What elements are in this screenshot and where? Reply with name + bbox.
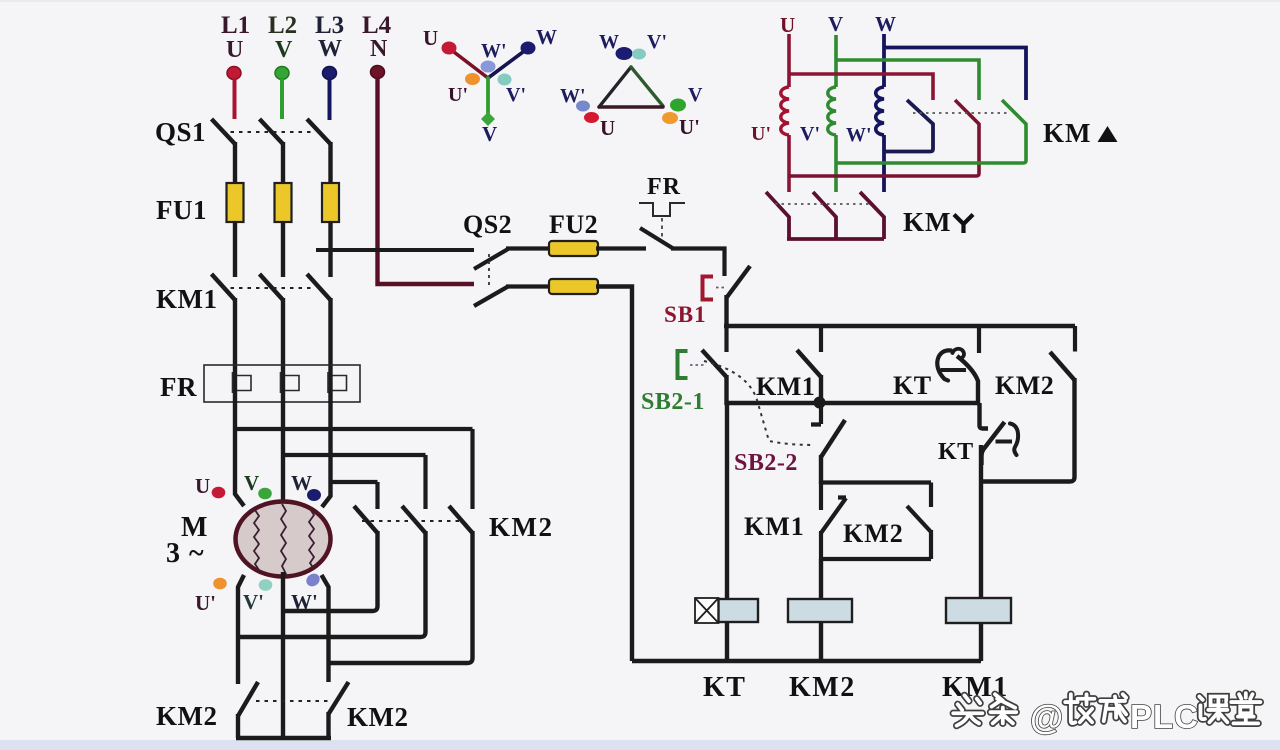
svg-text:V: V bbox=[828, 12, 843, 36]
terminal W2 dot bbox=[304, 571, 322, 589]
wire SB2-1 bottom bbox=[724, 375, 728, 405]
wire FR to SB1 corner bbox=[671, 249, 725, 277]
svg-text:V: V bbox=[688, 84, 703, 106]
wire delta pole2 bottom to U2 bbox=[238, 531, 426, 637]
wire star pole1 bottom bbox=[236, 714, 240, 738]
wire SB1 to rail bbox=[724, 295, 728, 328]
star W2 dot bbox=[481, 61, 496, 73]
fuse FU2 element 1 bbox=[548, 241, 598, 256]
svg-text:U: U bbox=[226, 37, 243, 63]
watermark hanzi ji bbox=[1065, 694, 1094, 723]
svg-text:W: W bbox=[875, 12, 896, 36]
contactor KM1 aux NO lead bbox=[819, 326, 823, 352]
FR symbol dashed link bbox=[661, 218, 663, 242]
FR heater element 2 bbox=[281, 372, 300, 393]
terminal V2 dot bbox=[259, 579, 273, 591]
contactor KM2 aux NO blade right bbox=[1050, 352, 1075, 380]
winding W vertical with coil bbox=[882, 34, 886, 87]
wire QS2 pole2 to FU2-2 bbox=[506, 284, 550, 288]
wire KT vertical below rail2 bbox=[980, 403, 989, 429]
svg-text:V': V' bbox=[243, 590, 264, 614]
delta U2 dot bbox=[662, 112, 678, 124]
svg-text:KM2: KM2 bbox=[789, 672, 856, 703]
node L1/U terminal dot bbox=[227, 67, 241, 80]
switch QS1 pole1 blade bbox=[212, 119, 236, 144]
wire U phase to delta contact3 top bbox=[235, 427, 473, 431]
QS1 linkage dotted line bbox=[222, 131, 312, 133]
FR thermal symbol bracket bbox=[639, 203, 685, 216]
coil KT X-box bbox=[695, 598, 719, 623]
wire V top to delta contact2 (green) bbox=[836, 60, 979, 100]
wire KM1 NC bottom bbox=[819, 531, 823, 560]
wire V vertical KM1 to FR bbox=[281, 298, 285, 403]
wire U top to delta contact1 (red) bbox=[789, 74, 933, 100]
parallel branch bottom bar bbox=[821, 557, 931, 561]
motor winding squiggle 2 bbox=[281, 504, 286, 581]
svg-text:N: N bbox=[370, 36, 388, 62]
switch QS2 pole1 blade bbox=[474, 249, 508, 269]
wire KM1 coil to bottom rail bbox=[979, 623, 983, 661]
svg-text:KM2: KM2 bbox=[489, 512, 554, 542]
mechanical dashed link SB2-1 to SB2-2 bbox=[704, 361, 814, 445]
delta triangle left side bbox=[599, 67, 631, 107]
svg-text:SB2-1: SB2-1 bbox=[641, 389, 705, 415]
wire U vertical QS1 to FU1 bbox=[233, 142, 237, 184]
svg-text:L1: L1 bbox=[221, 12, 250, 39]
wire V phase to delta contact2 top bbox=[283, 453, 426, 457]
wire W vertical FU1 to KM1 bbox=[328, 221, 332, 250]
wire N line full (dark maroon) down then right to QS2 bbox=[378, 78, 475, 284]
KM-delta linkage dotted bbox=[913, 112, 1008, 114]
FR heater element 3 bbox=[328, 372, 347, 393]
svg-text:KM: KM bbox=[1043, 118, 1092, 148]
wire V vertical FU1 to KM1 bbox=[281, 221, 285, 277]
wire SB2-1 branch down to KT coil bbox=[725, 403, 729, 600]
star W dot bbox=[521, 42, 536, 55]
KMY star point bar bbox=[787, 237, 884, 241]
svg-text:QS1: QS1 bbox=[155, 117, 206, 147]
svg-text:W': W' bbox=[560, 85, 586, 107]
svg-text:U: U bbox=[780, 13, 795, 37]
wire V vertical FR to motor bbox=[281, 401, 285, 504]
svg-text:U: U bbox=[195, 474, 210, 498]
contactor KM1 main pole1 blade bbox=[212, 274, 236, 300]
svg-text:KT: KT bbox=[938, 439, 974, 465]
wire KM1 aux bottom to junction bbox=[819, 375, 823, 403]
button SB2-1 bracket bbox=[678, 351, 688, 378]
wire delta pole3 bottom to W2 bbox=[329, 531, 473, 663]
wire W vertical FR to motor bbox=[322, 401, 331, 507]
KMY linkage dotted bbox=[775, 203, 870, 205]
KM1 linkage dotted line bbox=[222, 287, 312, 289]
watermark hanzi tiao bbox=[990, 694, 1016, 723]
watermark hanzi ke bbox=[1199, 696, 1227, 722]
timer KT delay hook symbol bbox=[953, 349, 965, 358]
svg-text:W': W' bbox=[846, 124, 872, 146]
winding U vertical with coil bbox=[787, 34, 791, 87]
node W branch to control circuit bbox=[316, 248, 474, 252]
KM-delta triangle symbol bbox=[1098, 126, 1118, 142]
switch QS1 pole3 blade bbox=[307, 119, 331, 144]
KM2 delta linkage dotted bbox=[362, 520, 460, 522]
parallel branch top bar bbox=[821, 480, 931, 484]
thermal relay FR box bbox=[204, 365, 360, 402]
node junction dot bbox=[814, 397, 826, 409]
wire U vertical KM1 to FR bbox=[233, 298, 237, 403]
wire W2 motor to KM2 star bbox=[322, 575, 329, 682]
svg-text:W: W bbox=[291, 471, 312, 495]
svg-text:KT: KT bbox=[703, 672, 746, 703]
KMY star symbol (inverted Y) bbox=[954, 215, 973, 234]
delta triangle bottom side bbox=[599, 105, 663, 108]
wire V vertical QS1 to FU1 bbox=[281, 142, 285, 184]
watermark hanzi tang bbox=[1231, 693, 1260, 723]
top edge light line bbox=[0, 0, 1280, 2]
button SB2-1 NO blade bbox=[702, 350, 727, 377]
contactor KM-delta pole3 blade (green) bbox=[836, 100, 1026, 163]
svg-text:KM2: KM2 bbox=[995, 371, 1054, 400]
wire KM2 coil to bottom rail bbox=[819, 622, 823, 661]
delta W dot bbox=[616, 47, 633, 60]
svg-text:U': U' bbox=[195, 591, 216, 615]
svg-text:W: W bbox=[536, 25, 557, 49]
control second rail bbox=[725, 401, 979, 405]
terminal V dot bbox=[258, 488, 272, 500]
contactor KM1 NC interlock lead bbox=[819, 483, 823, 511]
terminal U2 dot bbox=[213, 578, 227, 590]
contactor KM2 delta pole3 lead bbox=[470, 429, 474, 509]
wire SB2-2 bottom bbox=[819, 455, 823, 484]
contactor KM2 delta pole3 blade bbox=[449, 506, 473, 533]
button SB2-2 lead from junction bbox=[811, 403, 821, 425]
node L3/W terminal dot bbox=[323, 67, 337, 80]
svg-text:L4: L4 bbox=[362, 12, 392, 39]
svg-text:V': V' bbox=[800, 123, 820, 145]
svg-text:W: W bbox=[599, 31, 619, 53]
SB2-1 dashed link to blade bbox=[690, 364, 704, 366]
svg-text:FR: FR bbox=[160, 372, 197, 402]
svg-text:U: U bbox=[600, 116, 615, 140]
wire W stub from dot bbox=[328, 79, 332, 120]
switch QS2 pole2 blade bbox=[474, 287, 508, 307]
contactor KMY pole1 blade (maroon) bbox=[766, 192, 789, 239]
wire KM2 NO bottom bbox=[929, 530, 933, 559]
star U line bbox=[450, 49, 488, 78]
svg-text:KM2: KM2 bbox=[156, 701, 218, 731]
terminal W dot bbox=[307, 489, 321, 501]
contactor KM2 delta pole2 blade bbox=[402, 506, 426, 533]
delta triangle right side bbox=[631, 67, 663, 106]
delta V2 dot bbox=[632, 49, 646, 60]
node L4/N terminal dot bbox=[371, 66, 385, 79]
contactor KM2 aux NO lead right bbox=[1073, 326, 1077, 352]
delta W2 dot bbox=[576, 101, 590, 112]
wire W vertical QS1 to FU1 bbox=[328, 142, 332, 184]
contactor KM-delta pole1 blade (navy) bbox=[884, 100, 933, 152]
svg-text:KM1: KM1 bbox=[756, 372, 815, 401]
switch QS1 pole2 blade bbox=[260, 119, 284, 144]
wire U2 motor to KM2 star bbox=[238, 575, 244, 684]
contactor KM1 NC interlock blade bbox=[821, 498, 846, 534]
button SB2-1 lead bbox=[724, 326, 728, 352]
svg-text:@: @ bbox=[1030, 699, 1063, 737]
star W line bbox=[488, 49, 527, 78]
svg-text:KM2: KM2 bbox=[347, 702, 409, 732]
motor winding squiggle 3 bbox=[309, 509, 314, 569]
timer KT second delay arc bbox=[1010, 424, 1018, 456]
wire FU2-2 right then down to bottom rail bbox=[596, 287, 632, 662]
wire delta pole2 bottom to U line (red) bbox=[789, 162, 979, 176]
wire W phase to delta contact1 top bbox=[331, 480, 378, 484]
svg-text:W: W bbox=[318, 36, 342, 62]
contactor KM2 star pole1 blade bbox=[238, 682, 258, 716]
terminal U dot bbox=[212, 487, 226, 499]
contactor KM2 delta pole1 lead bbox=[375, 482, 379, 509]
wire KT branch to KM1 coil bbox=[979, 445, 983, 598]
fuse FU2 element 2 bbox=[548, 279, 598, 294]
button SB1 NC blade bbox=[727, 266, 750, 297]
star U dot bbox=[442, 42, 457, 55]
svg-text:KM1: KM1 bbox=[156, 284, 218, 314]
wire W top to delta contact3 (navy) bbox=[884, 48, 1026, 101]
wire QS2 pole1 to FU2 bbox=[506, 246, 550, 250]
svg-text:QS2: QS2 bbox=[463, 210, 512, 239]
contactor KM1 main pole3 blade bbox=[307, 274, 331, 300]
svg-text:V: V bbox=[244, 471, 259, 495]
watermark hanzi cheng bbox=[1100, 694, 1126, 721]
svg-text:V': V' bbox=[506, 84, 526, 106]
timer KT bar bbox=[941, 368, 967, 372]
svg-text:L2: L2 bbox=[268, 12, 297, 39]
svg-text:W': W' bbox=[481, 40, 507, 62]
bottom blue band bbox=[0, 740, 1280, 750]
wire star point bar bbox=[236, 736, 331, 740]
control top rail bbox=[724, 324, 1075, 328]
control bottom rail bbox=[632, 659, 981, 663]
wire U vertical FR to motor bbox=[235, 401, 244, 506]
coil KM1 body bbox=[946, 598, 1011, 623]
KM2 star linkage dotted bbox=[256, 700, 331, 702]
svg-text:L3: L3 bbox=[315, 12, 344, 39]
timer KT delay arc symbol bbox=[937, 350, 951, 380]
star V dot diamond bbox=[481, 112, 495, 126]
contactor KM1 aux NO blade bbox=[797, 350, 821, 377]
winding V vertical with coil bbox=[834, 35, 838, 87]
watermark hanzi tou bbox=[953, 695, 982, 725]
delta V dot bbox=[670, 99, 686, 112]
svg-text:U': U' bbox=[448, 84, 468, 106]
svg-text:KT: KT bbox=[893, 371, 932, 400]
wire delta pole1 bottom to V2 bbox=[283, 531, 378, 611]
svg-text:U': U' bbox=[679, 115, 700, 139]
svg-text:FU2: FU2 bbox=[549, 210, 598, 239]
contactor KM-delta pole2 blade (red) bbox=[955, 100, 979, 162]
timer KT second bar bbox=[996, 440, 1013, 444]
wire to KM2 coil bbox=[819, 559, 823, 600]
SB1 dashed link bbox=[716, 287, 726, 289]
fuse FU1 element 1 bbox=[227, 183, 244, 222]
star V line bbox=[486, 78, 490, 117]
button SB1 bracket bbox=[703, 277, 714, 300]
node L2/V terminal dot bbox=[275, 67, 289, 80]
svg-text:V: V bbox=[275, 37, 293, 63]
coil KM2 body bbox=[788, 599, 852, 622]
wire V2 motor to star point bbox=[281, 572, 285, 738]
svg-text:FU1: FU1 bbox=[156, 195, 207, 225]
motor M body bbox=[236, 502, 331, 577]
contactor KM2 delta pole2 lead bbox=[423, 455, 427, 509]
contactor KM2 aux NO lead (parallel) bbox=[929, 483, 933, 508]
star U2 dot bbox=[465, 73, 480, 85]
svg-text:U': U' bbox=[751, 123, 771, 145]
QS2 linkage dotted bbox=[488, 254, 490, 286]
contactor KM2 aux NO blade (parallel) bbox=[907, 506, 931, 532]
contactor KM2 star pole2 blade bbox=[329, 682, 349, 714]
contactor KMY pole2 blade (maroon) bbox=[813, 192, 836, 239]
svg-text:PLC: PLC bbox=[1130, 698, 1199, 735]
wire W vertical branch to KM1 bbox=[328, 250, 332, 277]
svg-text:SB2-2: SB2-2 bbox=[734, 450, 798, 476]
timer KT second contact blade bbox=[982, 422, 1005, 465]
wire KM2 aux down and left to KT branch bbox=[981, 378, 1075, 482]
wire U vertical FU1 to KM1 bbox=[233, 221, 237, 277]
wire U stub from dot bbox=[233, 79, 237, 119]
wire star pole2 bottom bbox=[326, 712, 330, 738]
fuse FU1 element 2 bbox=[275, 183, 292, 222]
contactor KM1 main pole2 blade bbox=[260, 274, 284, 300]
svg-text:KM2: KM2 bbox=[843, 519, 904, 548]
wire FU2-1 to FR contact bbox=[596, 246, 646, 250]
wire KT coil to bottom rail bbox=[725, 622, 729, 661]
svg-text:U: U bbox=[423, 26, 438, 50]
button SB2-2 NC blade bbox=[821, 420, 845, 457]
svg-text:KM: KM bbox=[903, 207, 952, 237]
coil KT body bbox=[719, 599, 759, 622]
delta U dot bbox=[584, 112, 599, 123]
svg-text:V': V' bbox=[647, 31, 667, 53]
timer KT blade bbox=[957, 356, 978, 404]
svg-text:KM1: KM1 bbox=[744, 512, 805, 541]
contact FR NC blade bbox=[640, 228, 674, 249]
star V2 dot bbox=[498, 74, 512, 86]
svg-text:V: V bbox=[482, 122, 497, 146]
FR heater element 1 bbox=[233, 372, 252, 393]
fuse FU1 element 3 bbox=[322, 183, 339, 222]
contactor KM2 delta pole1 blade bbox=[354, 506, 378, 533]
wire V stub from dot bbox=[280, 79, 284, 119]
wire W vertical KM1 to FR bbox=[328, 298, 332, 403]
svg-text:SB1: SB1 bbox=[664, 302, 707, 327]
motor winding squiggle 1 bbox=[254, 510, 259, 570]
contactor KMY pole3 blade (maroon) bbox=[860, 192, 884, 239]
svg-text:FR: FR bbox=[647, 174, 681, 200]
timer KT delayed contact lead bbox=[977, 326, 981, 353]
